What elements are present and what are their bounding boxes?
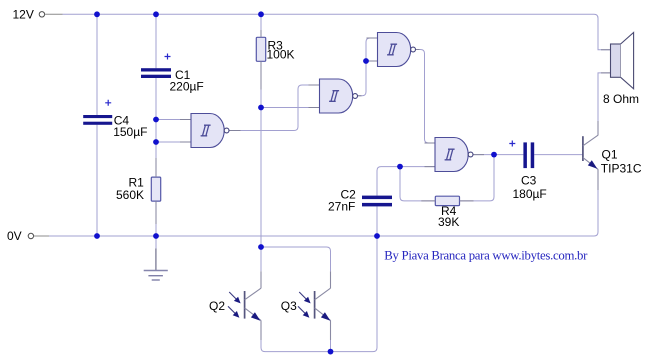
- phototransistor Q2: [228, 247, 261, 340]
- wire C4 branch top: [96, 14, 98, 115]
- speaker pin stubs: [601, 50, 611, 73]
- svg-text:Q2: Q2: [209, 299, 225, 313]
- wire R1 to 0V rail: [155, 201, 157, 236]
- wire gate3 output to gate4 upper input: [416, 50, 435, 144]
- svg-text:8 Ohm: 8 Ohm: [603, 92, 639, 106]
- wire gate1 output to gate2 upper input: [230, 85, 320, 131]
- wire speaker bottom to Q1 collector: [598, 73, 611, 121]
- 0V terminal: [28, 233, 49, 238]
- svg-text:TIP31C: TIP31C: [601, 162, 642, 176]
- capacitor C2: [362, 196, 392, 207]
- wire C1 branch top: [155, 14, 157, 68]
- svg-text:12V: 12V: [13, 8, 34, 22]
- svg-text:150µF: 150µF: [113, 125, 147, 139]
- capacitor C1: [141, 54, 171, 79]
- node dot 0V/C2: [374, 233, 380, 239]
- wire gate1 input stub upper: [156, 119, 191, 121]
- svg-text:180µF: 180µF: [513, 187, 547, 201]
- node dot Q3 emitter: [328, 349, 334, 355]
- wire gate1 input stub lower: [156, 141, 191, 143]
- 12V terminal: [39, 12, 62, 17]
- wire gate2 lower input stub: [261, 107, 320, 109]
- wire C2 bottom through 0V to photo loop: [261, 206, 377, 351]
- svg-text:By Piava Branca para www.ibyte: By Piava Branca para www.ibytes.com.br: [384, 249, 588, 263]
- wire C1 to R1 through gate1 inputs: [155, 78, 157, 177]
- node dot 12V/C4: [94, 11, 100, 17]
- phototransistor Q3: [298, 271, 331, 340]
- wire C4 branch bottom: [96, 125, 98, 236]
- svg-text:C3: C3: [521, 174, 537, 188]
- node dot gate4 output: [491, 152, 497, 158]
- wire C3 to Q1 base: [534, 154, 583, 156]
- wire R4 feedback loop left: [400, 167, 435, 201]
- node dot 12V/R3: [258, 11, 264, 17]
- op gate U1B (NAND schmitt): [320, 79, 358, 113]
- svg-text:560K: 560K: [116, 188, 144, 202]
- node dot R3/gate2 input: [258, 105, 264, 111]
- node dot gate3 tied inputs: [363, 58, 369, 64]
- svg-text:Q1: Q1: [602, 147, 618, 161]
- speaker LS1: [611, 33, 634, 89]
- svg-text:100K: 100K: [267, 48, 295, 62]
- wire 0V rail to Q1 emitter: [49, 169, 598, 236]
- wire R3 bottom down to phototransistor node: [260, 61, 262, 247]
- op gate U1A (NAND schmitt): [191, 114, 229, 148]
- wire photo collectors node to Q3: [261, 247, 331, 271]
- node dot gate1 upper input: [153, 117, 159, 123]
- svg-text:27nF: 27nF: [328, 199, 355, 213]
- node dot gate1 lower input: [153, 139, 159, 145]
- resistor pin stubs: [156, 30, 474, 224]
- svg-text:Q3: Q3: [281, 299, 297, 313]
- svg-text:39K: 39K: [438, 215, 459, 229]
- wire gate2 output to gate3 tied inputs: [357, 38, 377, 96]
- wire 12V rail to speaker top: [63, 14, 611, 50]
- node dot 0V/R1 ground: [153, 233, 159, 239]
- ground: [144, 236, 168, 280]
- svg-text:0V: 0V: [7, 229, 22, 243]
- capacitor C3: [509, 141, 534, 169]
- node dot gate4 lower input: [397, 164, 403, 170]
- wire R4 feedback loop right: [460, 155, 495, 201]
- wire gate4 output to C3: [473, 154, 523, 156]
- node dot 12V/C1: [153, 11, 159, 17]
- node dot 0V/C4: [94, 233, 100, 239]
- wire node to C2 top: [377, 167, 400, 196]
- resistor R1: [151, 177, 160, 201]
- wire Q3 emitter down: [330, 321, 332, 352]
- node dot photo collectors: [258, 244, 264, 250]
- wire R3 top: [260, 14, 262, 37]
- capacitor C4: [83, 100, 112, 125]
- transistor Q1: [583, 121, 598, 190]
- wire gate4 lower input to node: [400, 166, 435, 168]
- svg-text:220µF: 220µF: [170, 80, 204, 94]
- wire gate3 lower input stub: [366, 60, 378, 62]
- gate pin stubs: [180, 38, 484, 167]
- resistor R3: [256, 37, 265, 61]
- op gate U1C (NAND schmitt): [378, 33, 416, 67]
- op gate U1D (NAND schmitt): [435, 138, 473, 172]
- resistor R4: [435, 196, 459, 205]
